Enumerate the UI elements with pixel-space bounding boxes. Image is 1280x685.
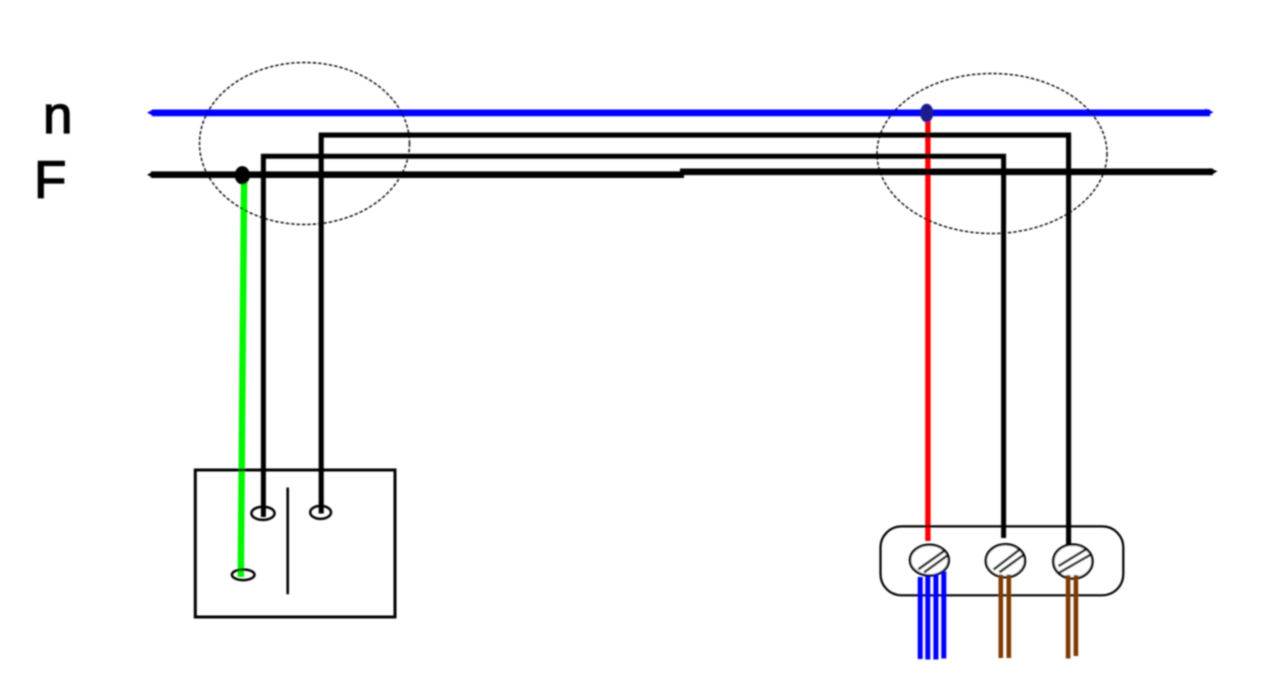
- wire neutral bus n (blue): [147, 109, 1214, 117]
- lamp flex brown strands under terminal 3: [1068, 575, 1076, 659]
- junction-box circle right: [877, 74, 1107, 234]
- switch terminal 1: [251, 507, 274, 520]
- junction-box circle left: [200, 63, 410, 225]
- switch terminal 3: [232, 570, 255, 581]
- lamp flex blue strands under terminal 1: [920, 572, 944, 660]
- svg-text:F: F: [34, 151, 66, 210]
- lamp flex brown strands under terminal 2: [1001, 575, 1009, 659]
- wire switch return 1 (switch terminal 1 to lamp terminal 2): [263, 156, 1003, 538]
- wire neutral drop to lamp terminal 1 (red): [925, 120, 930, 541]
- wire phase bus F right segment (black): [680, 168, 1218, 175]
- svg-text:n: n: [43, 86, 72, 145]
- junction node on n bus (dark blue dot): [920, 104, 933, 123]
- lamp screw terminal 3: [1053, 545, 1092, 579]
- lamp connector block body: [881, 526, 1124, 595]
- wire phase bus F left segment (black): [147, 171, 684, 178]
- switch terminal 2: [310, 506, 331, 519]
- wire phase feed to switch (green): [241, 180, 244, 577]
- switch S1 divider: [286, 488, 289, 595]
- lamp screw terminal 1: [910, 545, 949, 576]
- wire switch return 2 (switch terminal 2 to lamp terminal 3): [321, 135, 1068, 545]
- lamp screw terminal 2: [986, 544, 1025, 577]
- junction node on F bus (black dot): [235, 166, 250, 184]
- switch S1 body: [195, 470, 395, 617]
